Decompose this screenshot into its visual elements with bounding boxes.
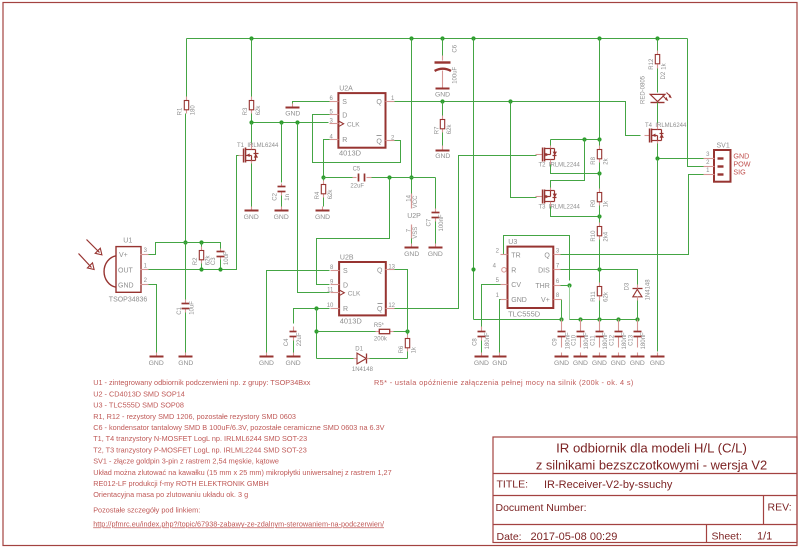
junction R4 C5	[321, 175, 325, 179]
wire THR trunk right	[570, 319, 638, 321]
svg-text:1k: 1k	[412, 346, 418, 353]
wire R2 bottom stub	[201, 264, 203, 270]
wire C8 to GND	[481, 341, 483, 353]
resistor R8 2k	[591, 146, 610, 165]
ground GND below C13	[630, 353, 645, 368]
ground GND below C8	[474, 353, 489, 368]
wire GND drop from T4	[657, 159, 659, 352]
wire THR stub join	[561, 285, 570, 287]
svg-text:R2: R2	[193, 257, 199, 265]
resistor R2 62k	[193, 247, 212, 266]
diode D3 1N4148	[624, 279, 651, 301]
wire VCC to U2P junction C5right	[411, 39, 413, 194]
svg-text:7: 7	[556, 263, 560, 269]
svg-text:Sheet:: Sheet:	[712, 530, 742, 542]
svg-text:2017-05-08 00:29: 2017-05-08 00:29	[531, 531, 618, 543]
ground GND below C11	[592, 353, 607, 368]
svg-text:R1, R12 - rezystory SMD 1206,: R1, R12 - rezystory SMD 1206, pozostałe …	[93, 412, 296, 421]
junction T4 source GND	[655, 156, 659, 160]
svg-text:C7: C7	[426, 218, 432, 226]
svg-text:1N4148: 1N4148	[646, 279, 652, 301]
svg-text:D: D	[343, 282, 348, 289]
svg-text:12: 12	[388, 303, 395, 309]
capacitor C6 100uF polarized	[435, 44, 459, 84]
wire VCC trunk left	[474, 319, 562, 321]
wire U3 CV5 to C8	[482, 285, 501, 327]
wire R8bot to R9	[599, 163, 601, 189]
wire U2A Q1 line to T4 gate	[393, 102, 641, 136]
junction R9 bottom T3 drain	[597, 214, 601, 218]
wire T2 source stub	[550, 140, 552, 147]
svg-text:R12: R12	[649, 58, 655, 70]
wire R5* right to junction	[394, 331, 408, 333]
svg-text:GND: GND	[259, 360, 274, 367]
wire R7 to GND	[442, 133, 444, 147]
ground GND below T1	[244, 207, 259, 221]
svg-text:62k: 62k	[604, 291, 610, 302]
svg-text:10uF: 10uF	[224, 251, 230, 265]
svg-text:IR-Receiver-V2-by-ssuchy: IR-Receiver-V2-by-ssuchy	[544, 479, 673, 491]
svg-text:1/1: 1/1	[757, 530, 772, 542]
svg-text:SV1 - złącze goldpin 3-pin z r: SV1 - złącze goldpin 3-pin z rastrem 2,5…	[93, 457, 279, 466]
ground GND below C9	[554, 353, 569, 368]
svg-text:R5* - ustala opóźnienie załącz: R5* - ustala opóźnienie załączenia pełne…	[374, 378, 634, 387]
svg-text:S: S	[343, 268, 348, 275]
svg-text:4: 4	[493, 264, 497, 270]
svg-text:U2P: U2P	[407, 213, 421, 220]
wire T2 drain line	[551, 164, 600, 174]
svg-text:CLK: CLK	[348, 290, 361, 297]
svg-text:62k: 62k	[447, 124, 453, 135]
junction trunk C13 D3	[635, 317, 639, 321]
svg-text:z silnikami bezszczotkowymi -: z silnikami bezszczotkowymi - wersja V2	[536, 457, 767, 472]
svg-text:2k: 2k	[604, 157, 610, 164]
svg-text:22uF: 22uF	[297, 332, 303, 346]
ground GND below S8 wire	[259, 353, 274, 368]
wire C2 to GND	[281, 196, 283, 207]
transistor T4 IRLML6244	[645, 123, 688, 143]
wire R3 to CLK net	[251, 114, 253, 123]
resistor R12 1k	[649, 51, 668, 70]
svg-text:GND: GND	[474, 360, 489, 367]
wire C5 left lead	[324, 177, 353, 179]
svg-text:GND: GND	[435, 92, 450, 99]
resistor R7 62k	[435, 116, 454, 135]
wire R9 to R10	[599, 206, 601, 223]
resistor R11 62k	[591, 283, 610, 302]
svg-text:VSS: VSS	[413, 227, 419, 239]
svg-text:U2A: U2A	[339, 86, 353, 93]
ground GND below C4	[286, 353, 301, 368]
svg-text:SIG: SIG	[733, 167, 746, 176]
junction OUT R2	[199, 267, 203, 271]
junction trunk C12	[616, 317, 620, 321]
annotation R5 note	[374, 378, 634, 387]
svg-text:Układ można zlutować na kawałk: Układ można zlutować na kawałku (15 mm x…	[93, 468, 391, 477]
power symbol U2P	[406, 194, 421, 244]
ground GND below U2A S6	[285, 104, 300, 118]
wire R10 to DIS	[599, 240, 601, 270]
svg-text:180nF: 180nF	[641, 332, 647, 349]
wire R1 to V+ node	[185, 114, 187, 243]
wire C1 to GND	[185, 313, 187, 353]
wire R5* left lead	[317, 331, 376, 333]
wire VCC to R12	[657, 39, 659, 51]
svg-text:OUT: OUT	[118, 268, 134, 275]
svg-text:1k: 1k	[662, 62, 668, 69]
resistor R6 1k	[399, 335, 418, 354]
wire R8 top stub	[599, 140, 601, 146]
svg-text:3: 3	[144, 248, 148, 254]
svg-text:C3: C3	[211, 257, 217, 265]
junction VCC at C5 right rail	[409, 175, 413, 179]
svg-text:U2B: U2B	[340, 254, 354, 261]
label D2 designator	[661, 71, 667, 79]
junction R8 top VCC	[597, 137, 601, 141]
svg-text:S: S	[342, 99, 347, 106]
diode D1 1N4148	[352, 347, 374, 373]
svg-text:R7: R7	[435, 126, 441, 134]
wire T3 gate drop	[511, 102, 537, 198]
junction dots on VCC rail	[249, 36, 659, 40]
capacitor C11 180nF	[591, 320, 610, 350]
svg-text:U1 - zintegrowany odbiornik po: U1 - zintegrowany odbiornik podczerwieni…	[93, 378, 311, 387]
svg-text:C1: C1	[177, 306, 183, 314]
annotation text block	[93, 378, 391, 528]
svg-text:GND: GND	[274, 214, 289, 221]
svg-text:Q: Q	[376, 139, 382, 146]
svg-text:C4: C4	[284, 338, 290, 346]
svg-text:14: 14	[406, 194, 412, 201]
svg-text:1: 1	[144, 263, 148, 269]
svg-text:TLC555D: TLC555D	[508, 309, 541, 318]
svg-text:GND: GND	[244, 214, 259, 221]
wire R6 bottom	[407, 352, 409, 359]
connector SV1	[704, 142, 751, 181]
svg-text:180nF: 180nF	[622, 332, 628, 349]
svg-text:100nF: 100nF	[439, 214, 445, 231]
svg-text:GND: GND	[435, 153, 450, 160]
junction trunk C10	[578, 317, 582, 321]
svg-text:2: 2	[496, 248, 500, 254]
transistor T2 IRLML2244	[536, 146, 581, 169]
svg-text:2: 2	[144, 278, 148, 284]
wire T4 source GND to SV1 pin3	[658, 144, 704, 159]
svg-text:3: 3	[706, 152, 710, 158]
svg-text:R11: R11	[591, 291, 597, 302]
junction R2 top	[199, 240, 203, 244]
svg-text:VCC: VCC	[413, 195, 419, 208]
wire U3 GND1 down	[500, 300, 501, 353]
svg-text:D1: D1	[355, 347, 363, 353]
wire CLK line	[252, 122, 329, 124]
wire THR down to trunk	[569, 286, 571, 320]
ground GND below U2P	[404, 244, 419, 258]
junction C5right D9	[387, 175, 391, 179]
wire R6 top stub	[407, 332, 409, 335]
svg-text:GND: GND	[315, 214, 330, 221]
svg-text:13: 13	[388, 264, 395, 270]
wire C4 to GND	[293, 341, 295, 353]
junction R10net R5*	[314, 329, 318, 333]
wire U2B S8 to GND	[267, 271, 330, 353]
junction T3 source feed	[582, 137, 586, 141]
svg-text:1k: 1k	[604, 200, 610, 207]
svg-text:GND: GND	[573, 360, 588, 367]
svg-text:T1, T4 tranzystory N-MOSFET Lo: T1, T4 tranzystory N-MOSFET LogL np. IRL…	[93, 434, 307, 443]
wire U3 TR2 loop	[504, 236, 570, 281]
wire R2 top stub	[201, 243, 203, 247]
svg-text:180nF: 180nF	[603, 332, 609, 349]
resistor R10 2k4	[591, 223, 610, 242]
ground GND below C7	[428, 244, 443, 258]
wire D1 cathode to R6	[370, 358, 408, 360]
wire C7 to GND	[435, 222, 437, 244]
transistor T3 IRLML2244	[536, 188, 581, 211]
junction CLK dots	[249, 120, 299, 124]
ground GND below U1 pin2	[149, 353, 164, 368]
resistor R3 62k	[243, 97, 262, 116]
svg-text:GND: GND	[428, 251, 443, 258]
wire U1 OUT to T1 gate	[149, 156, 239, 270]
ground GND below T4	[650, 353, 665, 368]
wire R7 stub	[442, 102, 444, 116]
wire R4 to GND	[323, 198, 325, 207]
svg-text:C2: C2	[273, 192, 279, 200]
svg-text:GND: GND	[118, 283, 134, 290]
svg-text:RE012-LF produkcji f-my ROTH E: RE012-LF produkcji f-my ROTH ELEKTRONIK …	[93, 479, 269, 488]
svg-text:2k4: 2k4	[604, 231, 610, 241]
junction Q1 R7	[440, 99, 444, 103]
svg-text:Document Number:: Document Number:	[496, 502, 587, 514]
capacitor C4 22uF	[284, 327, 303, 347]
wire T1 source to GND	[251, 164, 253, 207]
svg-text:SV1: SV1	[717, 142, 730, 149]
wire VCC to SV1 POW	[688, 39, 704, 167]
svg-text:THR: THR	[535, 283, 549, 290]
wire C2 to CLK	[281, 123, 283, 183]
junction OUT C3	[218, 267, 222, 271]
svg-text:TR: TR	[511, 252, 520, 259]
svg-text:R6: R6	[399, 345, 405, 353]
svg-text:100uF: 100uF	[453, 66, 459, 83]
ground GND below C10	[573, 353, 588, 368]
svg-text:C13: C13	[628, 334, 634, 346]
svg-text:Q: Q	[376, 99, 382, 106]
junction THR TR	[567, 283, 571, 287]
resistor R9 1k	[591, 189, 610, 208]
wire T3 drain line	[551, 206, 600, 217]
svg-text:GND: GND	[178, 360, 193, 367]
transistor T1 IRLML6244	[237, 143, 279, 163]
capacitor C9 180nF	[553, 320, 572, 350]
svg-text:C9: C9	[553, 338, 559, 346]
ground GND below C6	[435, 85, 450, 99]
svg-text:R3: R3	[243, 107, 249, 115]
IC U2A 4013D	[329, 86, 395, 158]
junction U3 reset pin4	[471, 267, 475, 271]
svg-text:180nF: 180nF	[485, 332, 491, 349]
wire VCC top rail	[187, 38, 688, 40]
svg-text:IR odbiornik dla modeli H/L (C: IR odbiornik dla modeli H/L (C/L)	[556, 440, 747, 455]
capacitor C8 180nF	[473, 327, 492, 350]
wire R11 top	[599, 270, 601, 283]
svg-text:180: 180	[190, 105, 196, 116]
junction node V+ filter	[183, 240, 187, 244]
svg-text:GND: GND	[286, 360, 301, 367]
wire V+ node to C1	[185, 243, 187, 300]
capacitor C3 10uF	[211, 249, 230, 266]
wire U2B R10 to C4	[294, 309, 330, 324]
svg-text:1n: 1n	[285, 194, 291, 201]
ground GND below R7	[435, 146, 450, 161]
wire U3 DIS7 line	[561, 270, 638, 285]
wire V+ node to C3	[186, 243, 221, 249]
junction R5* R6 Q13	[405, 329, 409, 333]
svg-text:GND: GND	[149, 360, 164, 367]
wire VCC to R8 ladder	[599, 39, 601, 140]
wire U3 Q3 to SV1 SIG	[561, 175, 704, 255]
svg-text:GND: GND	[630, 360, 645, 367]
wire R11 bottom	[599, 301, 601, 320]
svg-text:62k: 62k	[328, 189, 334, 200]
IC U2B 4013D	[327, 254, 396, 325]
capacitor C1 10uF	[177, 300, 196, 315]
wire U1 GND pin2	[149, 285, 157, 353]
svg-text:REV:: REV:	[768, 501, 792, 513]
wire T1 drain to CLK	[251, 123, 253, 144]
wire VCC to R1	[186, 39, 188, 97]
svg-text:T2, T3 tranzystory P-MOSFET Lo: T2, T3 tranzystory P-MOSFET LogL np. IRL…	[93, 445, 307, 454]
wire R10net vertical	[316, 309, 318, 359]
svg-text:10uF: 10uF	[190, 301, 196, 315]
wire U2A R4 down	[324, 140, 330, 178]
resistor R4 62k	[315, 181, 334, 200]
svg-text:1: 1	[496, 293, 500, 299]
svg-text:R5*: R5*	[374, 323, 385, 329]
svg-text:T2 IRLML2244: T2 IRLML2244	[539, 162, 581, 168]
svg-text:http://pfmrc.eu/index.php?/top: http://pfmrc.eu/index.php?/topic/67938-z…	[93, 519, 385, 528]
junction Q1 T3gate	[508, 99, 512, 103]
svg-text:T1 IRLML6244: T1 IRLML6244	[237, 143, 279, 149]
svg-text:RED-0805: RED-0805	[641, 75, 647, 104]
resistor R1 180	[178, 97, 197, 116]
wire U1 V+ pin3	[149, 243, 186, 255]
svg-text:R8: R8	[591, 156, 597, 164]
svg-text:C10: C10	[572, 334, 578, 346]
svg-text:V+: V+	[541, 297, 550, 304]
wire R12 to LED D2	[657, 69, 659, 93]
svg-text:62k: 62k	[206, 255, 212, 266]
svg-text:3: 3	[556, 248, 560, 254]
svg-text:D2: D2	[661, 71, 667, 79]
svg-text:R10: R10	[591, 230, 597, 242]
svg-text:U3 - TLC555D SMD SOP08: U3 - TLC555D SMD SOP08	[93, 401, 184, 410]
resistor R5* 200k	[374, 323, 394, 342]
svg-text:Q: Q	[544, 252, 550, 259]
svg-text:CLK: CLK	[347, 121, 360, 128]
svg-text:1: 1	[706, 168, 710, 174]
svg-text:C8: C8	[473, 338, 479, 346]
capacitor C2 1n	[273, 184, 292, 201]
ground GND below C2	[274, 207, 289, 221]
svg-text:10: 10	[327, 303, 334, 309]
wire LED to T4 drain	[657, 103, 659, 125]
ground GND below C1	[178, 353, 193, 368]
svg-text:GND: GND	[650, 360, 665, 367]
wire VCC to R3	[251, 39, 253, 97]
svg-text:C6: C6	[453, 44, 459, 52]
wire VCC to C6	[442, 39, 444, 56]
svg-text:C6 - kondensator tantalowy SMD: C6 - kondensator tantalowy SMD B 100uF/6…	[93, 423, 384, 432]
svg-text:22uF: 22uF	[350, 184, 364, 190]
wire U2A D5 Q2 feedback	[313, 115, 401, 163]
junction DIS R11	[597, 267, 601, 271]
IC U3 TLC555D	[493, 239, 562, 318]
wire C5 right to VCC	[372, 177, 436, 179]
svg-text:GND: GND	[592, 360, 607, 367]
svg-text:GND: GND	[554, 360, 569, 367]
svg-text:5: 5	[496, 278, 500, 284]
svg-text:Orientacyjna masa po zlutowani: Orientacyjna masa po zlutowaniu układu o…	[93, 490, 248, 499]
capacitor C10 180nF	[572, 320, 591, 350]
svg-text:T3 IRLML2244: T3 IRLML2244	[539, 204, 581, 210]
ground GND below C12	[611, 353, 626, 368]
svg-text:R4: R4	[315, 191, 321, 199]
svg-text:D3: D3	[624, 282, 630, 290]
svg-text:R: R	[343, 306, 348, 313]
svg-text:GND: GND	[285, 111, 300, 118]
wire U3 V+8 to trunk	[561, 300, 563, 320]
svg-text:T4 IRLML6244: T4 IRLML6244	[645, 123, 687, 129]
svg-text:GND: GND	[511, 297, 527, 304]
wire R4 resistor top	[323, 178, 325, 181]
wire VCC long vertical to U3 area	[473, 39, 475, 320]
wire U2A S6 to GND	[293, 102, 330, 104]
svg-text:U3: U3	[508, 239, 517, 246]
junction VCC trunk V+ C9	[559, 317, 563, 321]
capacitor C5 22uF	[350, 166, 371, 189]
capacitor C12 180nF	[609, 320, 628, 350]
wire T3 source feed	[551, 140, 585, 189]
svg-text:GND: GND	[611, 360, 626, 367]
svg-text:Date:: Date:	[497, 531, 522, 543]
capacitor C13 180nF	[628, 320, 647, 350]
ground GND below U3	[492, 353, 507, 368]
wire U2B Q12 to T2 gate	[395, 156, 537, 309]
svg-text:D: D	[342, 112, 347, 119]
svg-text:62k: 62k	[256, 105, 262, 116]
title block	[493, 437, 798, 543]
svg-text:Q: Q	[377, 306, 383, 313]
svg-text:GND: GND	[492, 360, 507, 367]
wire D3 anode to trunk	[637, 301, 639, 320]
wire U2B D9 to VCC	[317, 178, 390, 285]
svg-text:CV: CV	[511, 282, 521, 289]
svg-text:R: R	[511, 268, 516, 275]
svg-text:Pozostałe szczegóły pod linkie: Pozostałe szczegóły pod linkiem:	[93, 505, 200, 514]
svg-text:U2 - CD4013D SMD SOP14: U2 - CD4013D SMD SOP14	[93, 389, 185, 398]
svg-text:180nF: 180nF	[584, 332, 590, 349]
svg-text:R1: R1	[178, 107, 184, 115]
IR arrow 1	[87, 240, 102, 255]
svg-text:TSOP34836: TSOP34836	[109, 296, 148, 303]
svg-text:4013D: 4013D	[340, 317, 363, 326]
junction trunk C11 R11	[597, 317, 601, 321]
wire C7 drop	[435, 178, 437, 209]
IR arrow 2	[79, 254, 95, 270]
svg-text:C12: C12	[609, 334, 615, 346]
